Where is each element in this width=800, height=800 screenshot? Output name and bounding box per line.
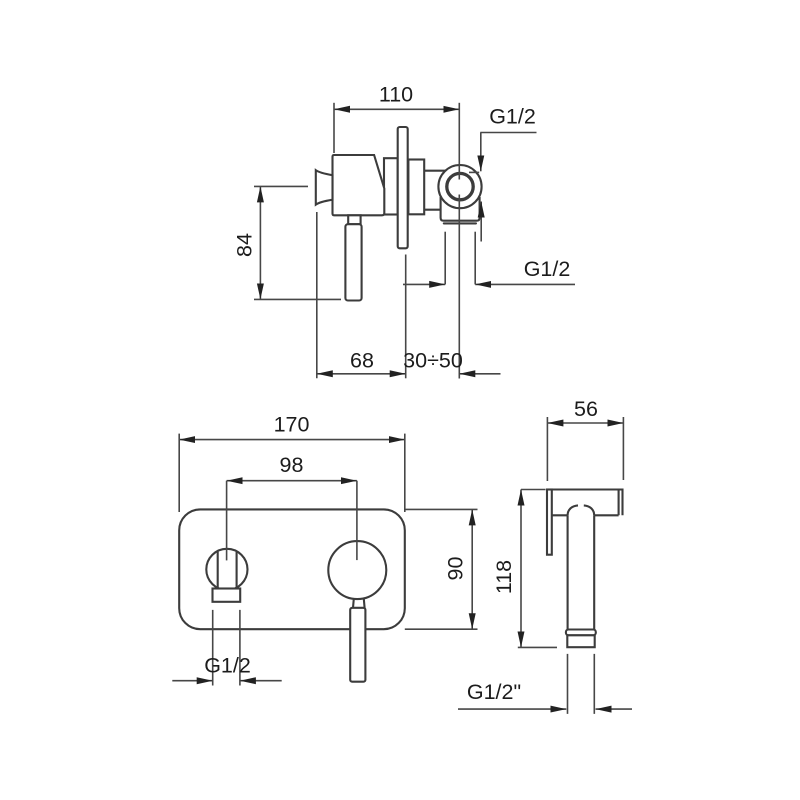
shower outlet nut	[567, 635, 594, 647]
side port outer circle	[438, 165, 481, 208]
extension line top of 118	[521, 489, 546, 491]
extension line bottom of 84	[254, 298, 341, 300]
svg-text:G1/2: G1/2	[524, 257, 571, 281]
svg-text:110: 110	[379, 83, 413, 107]
svg-text:56: 56	[574, 397, 598, 421]
bottom port left arrow	[403, 283, 445, 285]
extension line right of 170	[404, 434, 406, 512]
dimension 90 line	[471, 509, 473, 629]
G1/2 bottom-left right arrow	[240, 680, 282, 682]
extension line right of 110 lower part down to 30-50 dim	[458, 195, 460, 379]
dimension 84 line	[259, 186, 261, 299]
svg-text:118: 118	[492, 560, 516, 594]
extension line plate top right	[405, 508, 478, 510]
handle lever bar	[345, 224, 361, 300]
dimension 170 line	[179, 439, 405, 441]
G1/2 top leader down arrow	[480, 133, 482, 172]
dimension 68 line	[317, 373, 406, 375]
dimension 98 line	[227, 480, 357, 482]
G1/2 top leader underline	[480, 132, 536, 134]
svg-text:98: 98	[280, 453, 304, 477]
left knob stem lines	[218, 552, 237, 589]
svg-text:90: 90	[444, 557, 468, 581]
bottom port left edge line	[444, 232, 446, 285]
G1/2 up arrow under elbow	[480, 202, 482, 242]
G1/2 inch right arrow	[596, 708, 633, 710]
elbow bracket below circle	[441, 198, 480, 221]
extension line plate bottom right	[405, 628, 478, 630]
extension line top of 84	[254, 185, 308, 187]
side port inner ring	[447, 173, 473, 199]
temperature knob (left cone)	[316, 170, 333, 204]
extension line right of 110 upper part	[458, 103, 460, 180]
right handle neck	[353, 599, 365, 608]
extension lines below left knob	[213, 610, 240, 686]
extension line left of 56	[546, 417, 548, 481]
right handle lever	[350, 608, 365, 682]
shower handle sides	[568, 515, 595, 629]
pipe section B right of wall plate	[408, 160, 424, 215]
handle stem	[348, 215, 360, 224]
extension line right of 56	[622, 417, 624, 480]
extension line left of 98 into knob	[226, 481, 228, 561]
svg-text:84: 84	[233, 233, 257, 257]
dimension 56 line	[547, 422, 623, 424]
extension line from knob face	[316, 212, 318, 378]
short line at arrow tip	[469, 171, 479, 173]
svg-text:G1/2: G1/2	[204, 654, 251, 678]
right handle circle	[328, 541, 386, 599]
elbow bottom second line	[444, 222, 476, 224]
connector pipe to elbow	[424, 171, 447, 210]
shower head bottom edges	[552, 514, 619, 516]
left knob rectangle	[213, 589, 241, 602]
spray face plate	[547, 490, 552, 555]
bottom port right edge line	[474, 232, 476, 285]
svg-text:G1/2": G1/2"	[467, 680, 521, 704]
G1/2 inch left arrow	[458, 708, 566, 710]
svg-text:G1/2: G1/2	[489, 105, 536, 129]
cartridge ring A	[384, 158, 398, 214]
extension line bottom of 118	[518, 646, 557, 648]
svg-text:30÷50: 30÷50	[403, 349, 463, 373]
shower collar ring	[566, 630, 596, 636]
extension line below wall plate	[405, 255, 407, 379]
wall plate (side view)	[398, 127, 408, 248]
dimension 118 line	[520, 490, 522, 648]
wall plate front	[179, 509, 405, 629]
G1/2 bottom-left left arrow	[172, 680, 212, 682]
svg-text:170: 170	[274, 413, 310, 437]
shower body dome	[568, 505, 595, 515]
shower head top edge	[547, 490, 623, 516]
G1/2 right leader arrow	[475, 283, 575, 285]
mixer body	[333, 155, 385, 215]
extension lines below shower outlet	[568, 654, 595, 714]
dimension 30÷50 right arrow	[459, 373, 500, 375]
extension line left of 110	[333, 103, 335, 153]
dimension 110 line	[334, 108, 459, 110]
svg-text:68: 68	[350, 349, 374, 373]
extension line left of 170	[178, 434, 180, 512]
extension line right of 98 into handle	[356, 481, 358, 560]
left knob escutcheon circle	[206, 549, 247, 590]
